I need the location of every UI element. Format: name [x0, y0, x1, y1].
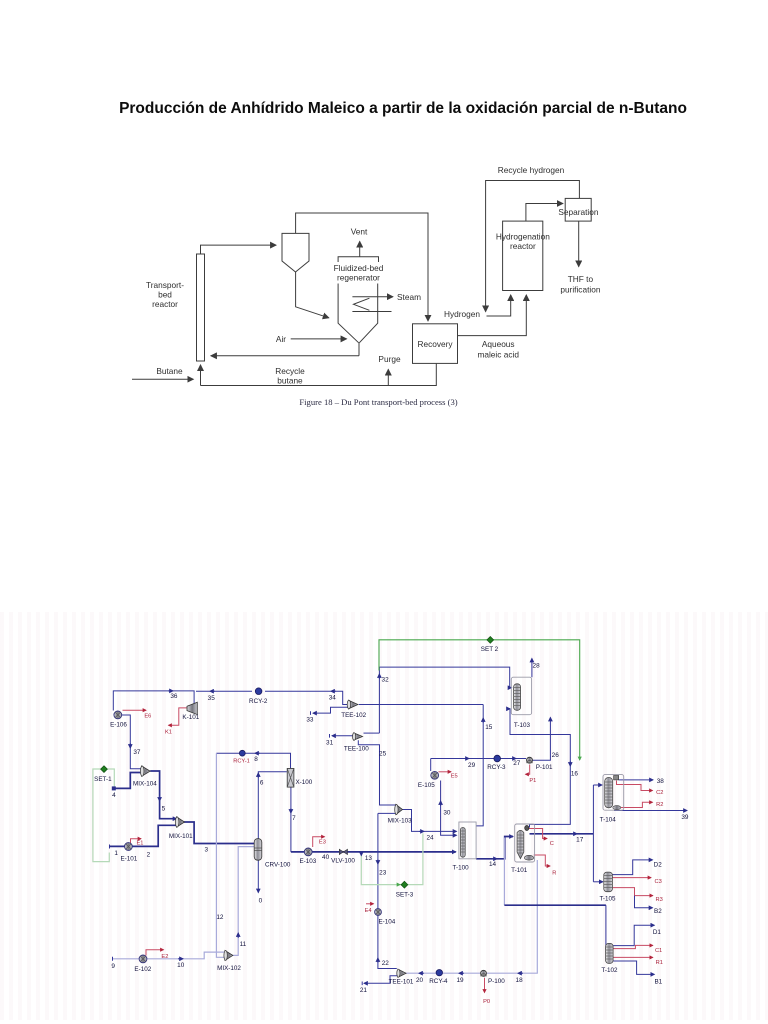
svg-text:30: 30 [443, 810, 451, 817]
svg-text:maleic acid: maleic acid [477, 350, 519, 360]
arrow stream 11 [237, 933, 239, 938]
svg-text:Recycle hydrogen: Recycle hydrogen [498, 165, 565, 175]
red wire E4 [366, 903, 374, 905]
arrow stream 32 [378, 674, 380, 679]
wire T-104 T-105 feed vertical [592, 785, 594, 882]
arrow SET-3 tick [360, 853, 362, 856]
svg-text:4: 4 [112, 792, 116, 799]
node stream 33 start tick [310, 711, 312, 715]
wire T-103 feed line [379, 667, 511, 688]
svg-text:MIX-101: MIX-101 [169, 833, 193, 840]
arrow stream 34 [331, 690, 336, 692]
wire R3 energy [612, 888, 652, 896]
wire cyclone overhead to recovery [296, 213, 428, 321]
svg-text:RCY-2: RCY-2 [249, 698, 268, 705]
set SET-2 [487, 637, 494, 644]
svg-text:R3: R3 [656, 897, 663, 903]
svg-text:SET 2: SET 2 [481, 646, 499, 653]
svg-text:6: 6 [260, 780, 264, 787]
column T-102 [606, 943, 614, 963]
svg-text:21: 21 [360, 987, 368, 994]
wire stream 6 CRV-100 to X-100 [258, 772, 287, 839]
svg-text:27: 27 [513, 760, 521, 767]
cooler E-106 [114, 711, 122, 719]
wire stream 36 K-101 to E-106 [113, 691, 194, 711]
svg-text:reactor: reactor [510, 241, 536, 251]
wire stream 25 TEE-100 to MIX-103 [358, 740, 395, 805]
red wire C condenser duty [529, 829, 547, 839]
svg-text:34: 34 [329, 695, 337, 702]
wire stream 23 22 vertical through E-104 [378, 813, 397, 968]
arrow stream 5 [159, 796, 161, 801]
svg-text:T-103: T-103 [514, 722, 531, 729]
arrow stream 16 [569, 761, 571, 766]
svg-text:3: 3 [205, 847, 209, 854]
recycle RCY-1 [239, 750, 245, 756]
svg-text:17: 17 [576, 837, 584, 844]
svg-text:24: 24 [426, 835, 434, 842]
svg-text:40: 40 [322, 854, 330, 861]
wire stream 33 from TEE-102 [313, 707, 348, 713]
valve VLV-100 [339, 849, 347, 854]
node 4 feed square [112, 786, 116, 790]
svg-text:36: 36 [170, 693, 178, 700]
wire stream 29 27 E-105 to P-101 [431, 758, 526, 760]
arrow stream 35 [210, 690, 215, 692]
svg-text:Purge: Purge [378, 354, 401, 364]
svg-text:29: 29 [468, 762, 476, 769]
steam line [352, 296, 392, 298]
wire stream 7 X-100 to main line [290, 787, 292, 852]
svg-text:28: 28 [533, 663, 541, 670]
wire stream 9 10 through E-102 to MIX-102 [113, 952, 225, 959]
svg-text:K-101: K-101 [182, 714, 199, 721]
wire stream 11 MIX-102 to CRV-100 [232, 847, 254, 956]
svg-text:T-101: T-101 [511, 867, 528, 874]
arrow stream 6 [257, 773, 259, 778]
green wire SET-3 link [361, 833, 423, 884]
wire stream 21 from TEE-101 [364, 976, 398, 984]
vent arrow [359, 242, 361, 257]
wire T-100 bottoms stream 14 [476, 837, 513, 859]
heat exchanger coil [354, 298, 370, 310]
tee TEE-100 [353, 733, 363, 741]
wire stream 4 node to MIX-104 [114, 773, 141, 789]
wire stream 32 vertical to TEE-100 [378, 667, 380, 733]
svg-text:14: 14 [489, 861, 497, 868]
svg-text:7: 7 [292, 815, 296, 822]
arrow stream 22 [377, 958, 379, 963]
red wire K1 [169, 708, 187, 725]
wire T-103 bottom-left port arrow [508, 708, 510, 710]
svg-text:P-100: P-100 [488, 978, 505, 985]
wire R2 energy [621, 802, 653, 807]
separation box [565, 198, 591, 221]
svg-text:Air: Air [276, 334, 286, 344]
svg-text:20: 20 [416, 977, 424, 984]
svg-text:SET-1: SET-1 [94, 776, 112, 783]
cooler E-101 [124, 843, 132, 851]
svg-text:8: 8 [254, 756, 258, 763]
svg-text:D1: D1 [653, 929, 662, 936]
arrow stream 23 [377, 859, 379, 864]
svg-text:E-101: E-101 [120, 855, 137, 862]
svg-text:Recovery: Recovery [417, 339, 453, 349]
red wire E3 [313, 837, 325, 847]
compressor K-101 [187, 702, 197, 714]
wire stream 0 CRV-100 bottom [257, 860, 259, 892]
svg-text:31: 31 [326, 740, 334, 747]
regenerator top bracket [338, 257, 378, 262]
recycle RCY-3 [494, 755, 501, 762]
svg-text:E-102: E-102 [134, 966, 151, 973]
node stream 1 start tick [109, 845, 111, 849]
svg-text:P1: P1 [529, 778, 536, 784]
hydrogenation reactor box [503, 221, 543, 290]
wire MIX-101 outlet stream 3 to CRV-100 [183, 822, 254, 844]
svg-text:TEE-101: TEE-101 [389, 979, 414, 986]
cooler E-103 [304, 848, 312, 856]
svg-text:RCY-1: RCY-1 [233, 759, 250, 765]
cooler E-105 [431, 771, 439, 779]
mixer MIX-103 [395, 804, 403, 814]
svg-text:TEE-102: TEE-102 [341, 712, 366, 719]
wire stream 30 E-105 to T-100 [441, 781, 457, 836]
wire MIX-103 lower inlet [378, 812, 396, 814]
recovery box [413, 324, 458, 364]
wire C2 energy [617, 781, 653, 791]
wire stream D2 [612, 860, 652, 875]
svg-text:1: 1 [114, 850, 118, 857]
svg-text:18: 18 [516, 977, 524, 984]
arrow stream 15 [482, 718, 484, 723]
wire stream 15 T-100 overhead riser [476, 705, 483, 826]
svg-text:B1: B1 [654, 979, 662, 986]
svg-text:T-104: T-104 [600, 817, 617, 824]
tee TEE-101 [397, 969, 406, 977]
arrow stream 19 [459, 972, 464, 974]
node stream 31 start tick [329, 734, 331, 738]
arrow stream 36 [168, 690, 173, 692]
arrow stream 10 [178, 958, 183, 960]
svg-text:E6: E6 [144, 714, 151, 720]
butane arrow [132, 378, 193, 380]
svg-text:Figure 18 – Du Pont transport-: Figure 18 – Du Pont transport-bed proces… [299, 397, 457, 407]
column T-100 [459, 822, 476, 859]
svg-text:15: 15 [485, 724, 493, 731]
svg-text:regenerator: regenerator [337, 273, 380, 283]
wire stream 39 [614, 810, 687, 812]
svg-text:5: 5 [162, 805, 166, 812]
svg-text:MIX-104: MIX-104 [133, 781, 157, 788]
cyclone dipleg wire [296, 272, 329, 318]
svg-text:Steam: Steam [397, 292, 421, 302]
set SET-1 [101, 766, 108, 773]
svg-text:0: 0 [259, 898, 263, 905]
set SET-3 [401, 881, 408, 888]
recycle butane bottom line [201, 364, 437, 386]
svg-text:T-102: T-102 [601, 967, 618, 974]
wire MIX-104 outlet stream 5 to MIX-101 [150, 771, 176, 819]
arrow stream 24 [419, 830, 424, 832]
red wire P0 [484, 978, 486, 993]
arrow stream 30 [440, 801, 442, 806]
wire E-106 outlet stream 37 to MIX-104 [122, 715, 141, 769]
svg-text:P-101: P-101 [536, 764, 553, 771]
wire stream B1 [613, 961, 654, 974]
svg-text:22: 22 [382, 960, 390, 967]
recycle RCY-4 [436, 970, 442, 976]
svg-text:reactor: reactor [152, 299, 178, 309]
hydrogen to reactor wire [487, 295, 511, 316]
wire stream 28 T-103 overhead [531, 659, 533, 678]
regenerator stem [358, 343, 360, 356]
arrow stream 29 [464, 758, 469, 760]
svg-text:T-105: T-105 [599, 896, 616, 903]
mixer MIX-101 [175, 817, 184, 827]
svg-text:16: 16 [571, 771, 579, 778]
svg-text:MIX-102: MIX-102 [217, 965, 241, 972]
svg-text:Separation: Separation [558, 207, 599, 217]
svg-text:Hydrogenation: Hydrogenation [496, 232, 550, 242]
red wire R reboiler duty [534, 855, 550, 866]
wire T-105 feed stub [593, 881, 602, 883]
wire TEE-100 inlet [364, 732, 380, 734]
aqueous maleic acid wire [458, 295, 527, 336]
svg-text:32: 32 [382, 677, 390, 684]
cyclone [282, 233, 309, 272]
column T-105 [604, 872, 613, 892]
wire stream 26 P-101 to T-103 [532, 718, 550, 761]
svg-text:C: C [550, 841, 554, 847]
svg-text:10: 10 [177, 962, 185, 969]
svg-text:Fluidized-bed: Fluidized-bed [334, 263, 384, 273]
svg-text:C3: C3 [655, 879, 662, 885]
green wire SET-1 left link [93, 769, 109, 862]
air arrow [291, 338, 347, 340]
svg-text:Recycle: Recycle [275, 366, 305, 376]
svg-text:Aqueous: Aqueous [482, 339, 515, 349]
svg-text:Hydrogen: Hydrogen [444, 309, 480, 319]
purge arrow [387, 370, 389, 386]
conversion X-100 [287, 768, 294, 787]
node stream 9 start tick [112, 957, 114, 961]
arrow stream 7 [290, 808, 292, 813]
regenerator return wire to reactor [211, 355, 359, 357]
svg-text:12: 12 [216, 914, 224, 921]
green arrow into SET-3 [397, 884, 400, 886]
lower exchanger line [352, 311, 391, 313]
svg-text:E4: E4 [365, 908, 372, 914]
green wire SET-2 link [379, 640, 580, 760]
svg-text:T-100: T-100 [453, 865, 470, 872]
wire bypass to T-102 [504, 904, 606, 906]
wire MIX-103 outlet stream 24 to T-100 [401, 810, 457, 832]
transport-bed reactor column [197, 254, 205, 361]
arrow stream 20 [419, 972, 424, 974]
svg-text:E3: E3 [319, 840, 326, 846]
green wire SET-1 right link [108, 769, 115, 787]
svg-text:X-100: X-100 [295, 779, 312, 786]
svg-text:D2: D2 [654, 862, 663, 869]
red wire E6 [123, 709, 147, 711]
svg-text:E2: E2 [161, 954, 168, 960]
wire stream 35 RCY-2 to K-101 [196, 690, 252, 692]
svg-text:E-105: E-105 [418, 782, 435, 789]
column T-103 [511, 677, 531, 715]
pump P-101 [527, 757, 533, 763]
wire stream 18 T-101 bottoms to P-100 [487, 860, 537, 973]
svg-text:E-104: E-104 [378, 919, 395, 926]
svg-text:R1: R1 [656, 960, 663, 966]
tee TEE-102 [347, 700, 358, 709]
svg-text:19: 19 [456, 977, 464, 984]
svg-text:TEE-100: TEE-100 [344, 745, 369, 752]
svg-text:2: 2 [147, 852, 151, 859]
svg-text:CRV-100: CRV-100 [265, 862, 291, 869]
svg-text:P0: P0 [483, 999, 490, 1005]
cooler E-104 [375, 909, 382, 916]
svg-text:E5: E5 [451, 774, 458, 780]
svg-text:E-106: E-106 [110, 722, 127, 729]
recycle hydrogen loop wire [486, 181, 580, 312]
svg-text:THF to: THF to [568, 274, 594, 284]
riser into reactor bottom [200, 365, 202, 386]
wire bypass lavender vertical [503, 838, 505, 906]
cooler E-102 [139, 955, 147, 963]
reactor CRV-100 [254, 839, 262, 861]
mixer MIX-104 [140, 766, 150, 776]
wire T-102 feed vertical [605, 905, 608, 949]
svg-text:B2: B2 [654, 908, 662, 915]
svg-text:bed: bed [158, 290, 172, 300]
pump P-100 [481, 970, 487, 976]
wire C3 energy [612, 877, 651, 879]
wire reactor to separation [526, 204, 563, 222]
svg-text:MIX-103: MIX-103 [388, 818, 412, 825]
svg-text:R: R [552, 871, 556, 877]
svg-text:23: 23 [379, 870, 387, 877]
svg-text:Transport-: Transport- [146, 280, 184, 290]
wire reactor top to cyclone [201, 245, 277, 254]
arrow stream 18 [518, 972, 523, 974]
svg-text:33: 33 [306, 717, 314, 724]
wire C1 energy [613, 945, 653, 948]
wire stream 31 from TEE-100 [332, 735, 354, 737]
regenerator vessel walls [338, 284, 359, 343]
svg-text:26: 26 [552, 752, 560, 759]
svg-text:VLV-100: VLV-100 [331, 858, 355, 865]
wire stream 17 T-101 overhead main [530, 833, 594, 835]
wire stream 34 RCY-2 to TEE-102 [265, 691, 348, 704]
wire TEE-102 outlet to corner 15 [359, 704, 483, 706]
red wire E1 [131, 839, 142, 843]
svg-text:R2: R2 [656, 802, 663, 808]
wire main line 40 13 to T-100 [291, 851, 456, 853]
recycle RCY-2 [255, 688, 262, 695]
svg-text:11: 11 [240, 941, 247, 948]
svg-text:K1: K1 [165, 730, 172, 736]
svg-text:9: 9 [111, 963, 115, 970]
svg-text:C2: C2 [656, 790, 663, 796]
svg-text:13: 13 [365, 855, 373, 862]
svg-text:E1: E1 [137, 840, 144, 846]
wire R1 energy [613, 956, 653, 958]
wire stream 38 [619, 779, 653, 781]
svg-text:C1: C1 [655, 948, 662, 954]
svg-text:25: 25 [379, 750, 387, 757]
svg-text:39: 39 [681, 814, 689, 821]
arrow stream 27 [511, 758, 516, 760]
column T-104 [603, 775, 624, 811]
wire stream 20 19 TEE-101 to P-100 [405, 972, 480, 974]
arrow stream 8 [255, 752, 260, 754]
red wire P1 [526, 765, 530, 775]
svg-text:35: 35 [208, 695, 216, 702]
column T-101 [515, 824, 535, 862]
wire E-105 inlet riser [430, 759, 432, 772]
wire stream B2 [635, 896, 653, 908]
svg-text:Butane: Butane [156, 366, 183, 376]
svg-text:RCY-4: RCY-4 [429, 978, 448, 985]
svg-text:purification: purification [560, 285, 601, 295]
red wire E2 [146, 950, 164, 956]
arrow stream 14 [492, 858, 497, 860]
wire T-104 feed stub [593, 784, 602, 786]
svg-text:E-103: E-103 [299, 858, 316, 865]
svg-text:Vent: Vent [351, 227, 368, 237]
svg-text:38: 38 [657, 778, 665, 785]
wire stream 8 X-100 to RCY-1 to stream 12 [216, 753, 290, 768]
wire stream 16 T-103 bottoms to T-101 condenser [510, 709, 570, 828]
svg-text:butane: butane [277, 376, 303, 386]
mixer MIX-102 [224, 951, 233, 961]
separation bottom arrow [578, 221, 580, 266]
red wire E5 [439, 771, 452, 773]
wire stream 1 2 through E-101 [110, 825, 177, 846]
wire stream 12 down to MIX-102 [216, 753, 224, 957]
svg-text:37: 37 [133, 749, 141, 756]
wire stream D1 [613, 925, 654, 945]
node stream 21 end tick [361, 982, 363, 986]
svg-text:RCY-3: RCY-3 [487, 764, 506, 771]
arrow stream 37 [129, 743, 131, 748]
arrow stream 17 [572, 833, 577, 835]
svg-text:SET-3: SET-3 [396, 892, 414, 899]
